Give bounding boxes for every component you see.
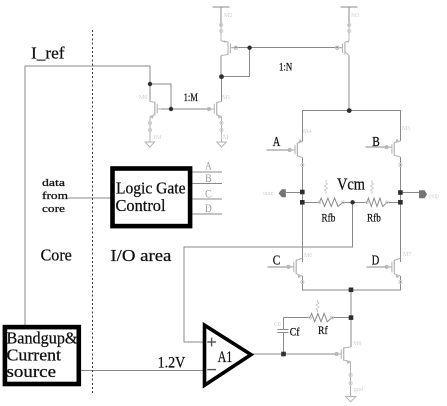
wire center tail down xyxy=(350,290,352,347)
wire M_P2 drain lead xyxy=(348,56,350,111)
wire M_N1 drain lead xyxy=(149,84,151,102)
wire gate B xyxy=(366,146,392,148)
svg-text:M5: M5 xyxy=(402,126,410,132)
svg-text:M2: M2 xyxy=(224,13,232,19)
port output right xyxy=(419,190,427,198)
node Vcm xyxy=(350,200,354,204)
node Rf join xyxy=(349,315,354,320)
wire gate D xyxy=(367,266,392,268)
wire Rf right lead xyxy=(332,317,351,319)
svg-text:C: C xyxy=(273,252,281,267)
wire top loop to PMOS gate xyxy=(222,48,250,77)
node Cf join xyxy=(281,352,286,357)
wire Cf bottom lead xyxy=(283,333,285,354)
node out right lower xyxy=(398,200,403,205)
vdd rail M_P2 xyxy=(340,6,357,8)
svg-text:1.2V: 1.2V xyxy=(158,354,186,371)
node out left upper xyxy=(300,190,305,195)
svg-text:1:M: 1:M xyxy=(184,90,199,104)
wire C drain down xyxy=(302,276,400,290)
node mirror mid xyxy=(219,74,224,79)
svg-text:data: data xyxy=(42,177,65,189)
svg-text:Logic Gate: Logic Gate xyxy=(116,178,186,197)
transistor M_N2 (1:M out NMOS) xyxy=(208,102,222,119)
box Logic Gate Control xyxy=(113,169,191,227)
wire M_P1 source lead xyxy=(220,7,222,27)
wire Rf row xyxy=(284,317,311,319)
wire gate A xyxy=(267,149,295,151)
svg-text:Rf: Rf xyxy=(318,323,328,337)
svg-text:1M: 1M xyxy=(153,135,162,141)
transistor A xyxy=(288,139,302,157)
svg-text:D: D xyxy=(372,252,380,267)
ground below M_N2 xyxy=(217,142,226,147)
svg-text:gnd: gnd xyxy=(354,387,363,393)
svg-text:C0: C0 xyxy=(274,322,281,328)
svg-text:M7: M7 xyxy=(403,252,411,258)
svg-text:Core: Core xyxy=(41,245,72,264)
svg-text:M6: M6 xyxy=(304,253,312,259)
transistor B xyxy=(385,139,400,157)
node PMOS gate xyxy=(247,46,251,50)
wire Cf top lead xyxy=(283,318,285,330)
op-amp A1 xyxy=(205,325,252,385)
wire M_P1 drain lead xyxy=(220,56,222,77)
resistor Rf xyxy=(310,313,332,321)
wire gate C xyxy=(268,266,294,268)
capacitor Cf plates xyxy=(277,329,288,331)
transistor M_P1 (1:N diode PMOS) xyxy=(221,40,237,55)
wire M_P2 source pin xyxy=(348,27,350,41)
svg-text:M1: M1 xyxy=(222,95,230,101)
port output left xyxy=(279,189,286,197)
svg-text:M8: M8 xyxy=(353,341,361,347)
transistor D xyxy=(385,258,400,278)
wire tail rail xyxy=(302,111,400,142)
vdd rail M_P1 xyxy=(212,6,229,8)
wire op-amp minus input 1.2V xyxy=(81,370,203,372)
wire stub B xyxy=(192,183,222,185)
transistor M_P2 (1:N out PMOS) xyxy=(336,40,350,55)
node out left lower xyxy=(300,200,305,205)
faint mini resistor above Rfb left xyxy=(325,180,328,194)
svg-text:A: A xyxy=(273,134,281,149)
wire stub C xyxy=(192,198,222,200)
node 1:M gate xyxy=(169,107,173,111)
svg-text:Rfb: Rfb xyxy=(367,210,381,224)
node out right upper xyxy=(398,190,403,195)
wire Rfb left to Vcm node xyxy=(343,201,367,203)
faint mini resistor above Rfb right xyxy=(371,180,374,194)
wire M_out drain lead xyxy=(350,318,352,347)
wire branch A down xyxy=(301,158,303,262)
faint terminal circles xyxy=(220,23,223,26)
svg-text:Cf: Cf xyxy=(290,325,300,339)
wire left output tap xyxy=(286,192,303,194)
svg-text:C: C xyxy=(205,188,212,200)
wire diode loop M_N1 xyxy=(150,84,171,109)
transistor M_out xyxy=(335,347,351,364)
transistor M_N1 (1:M diode NMOS) xyxy=(150,102,161,119)
wire branch B down xyxy=(399,157,401,262)
wire op-amp output xyxy=(250,353,338,355)
svg-text:D: D xyxy=(205,203,212,215)
wire M_N1 source lead xyxy=(149,117,151,143)
svg-text:1:N: 1:N xyxy=(279,59,293,73)
svg-text:M0: M0 xyxy=(139,95,147,101)
wire stub A xyxy=(192,171,222,173)
faint mini resistor above Rf xyxy=(316,300,319,312)
ground below M_out xyxy=(346,397,356,402)
svg-text:A1: A1 xyxy=(218,349,233,366)
node CD join xyxy=(349,288,354,293)
svg-text:source: source xyxy=(7,362,56,381)
svg-text:B: B xyxy=(372,134,380,149)
wire Rfb row left lead xyxy=(302,201,319,203)
ground below M_N1 xyxy=(145,142,154,147)
wire stub D xyxy=(192,213,222,215)
node I_ref tap xyxy=(148,82,152,86)
svg-text:A: A xyxy=(205,160,212,172)
wire Rfb right lead xyxy=(387,201,400,203)
resistor Rfb right xyxy=(367,198,387,206)
svg-text:B: B xyxy=(205,173,212,185)
resistor Rfb left xyxy=(320,198,344,206)
svg-text:outp: outp xyxy=(429,194,440,200)
svg-text:I/O area: I/O area xyxy=(110,246,171,265)
node tail top xyxy=(347,108,352,113)
svg-text:M4: M4 xyxy=(303,129,311,135)
svg-text:from: from xyxy=(42,190,69,202)
wire M_P1 source pin xyxy=(220,27,222,41)
wire Vcm feedback to op-amp xyxy=(184,202,353,342)
svg-text:outn: outn xyxy=(263,191,274,197)
wire I_ref horizontal xyxy=(25,66,150,325)
wire M_out source lead xyxy=(350,362,352,397)
wire right output tap xyxy=(400,192,418,194)
svg-text:I_ref: I_ref xyxy=(31,43,65,62)
wire gate line 1:N mirror xyxy=(232,47,341,49)
svg-text:M3: M3 xyxy=(351,13,359,19)
wire data from core xyxy=(68,197,110,199)
box Bandgup & Current source xyxy=(5,327,79,384)
wire M_N2 source lead xyxy=(221,117,223,143)
wire gate line 1:M mirror xyxy=(159,108,214,110)
svg-text:Vcm: Vcm xyxy=(337,174,365,193)
svg-text:1M: 1M xyxy=(220,135,229,141)
wire M_N2 drain lead xyxy=(221,77,223,102)
dashed core/IO boundary xyxy=(91,30,93,393)
transistor C xyxy=(287,258,302,278)
wire M_P2 source lead xyxy=(348,7,350,27)
svg-text:Rfb: Rfb xyxy=(322,210,336,224)
svg-text:Control: Control xyxy=(116,196,166,215)
svg-text:core: core xyxy=(42,203,65,215)
